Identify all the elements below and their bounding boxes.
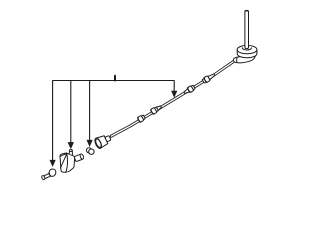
ferrule A on cable bbox=[137, 114, 145, 122]
leader line 3 bbox=[89, 81, 91, 141]
antenna mast rod bbox=[245, 10, 249, 48]
block part (middle bottom) bbox=[60, 149, 84, 172]
bracket tick (label position) bbox=[114, 76, 116, 81]
cable (main diagonal wire) bbox=[111, 61, 234, 136]
block top nub bbox=[69, 150, 72, 154]
block front-face edge bbox=[66, 153, 68, 172]
bolt (part far bottom-left) bbox=[41, 169, 56, 180]
cable end plug connector bbox=[94, 133, 113, 150]
block side boss bbox=[74, 154, 84, 162]
arrowhead 3 (to small ring) bbox=[87, 140, 93, 147]
arrowhead 4 (to cable) bbox=[171, 91, 177, 98]
ferrule D on cable (cone on right) bbox=[202, 72, 216, 84]
block diagonal line bbox=[61, 154, 67, 168]
arrowhead 1 (to bolt) bbox=[50, 160, 56, 167]
small ring / nut part bbox=[86, 148, 94, 155]
grommet ring (mast base bushing) bbox=[237, 45, 257, 57]
elbow snout joint line bbox=[236, 58, 238, 62]
antenna mast base elbow body bbox=[233, 56, 255, 63]
ferrule B on cable (with cone taper) bbox=[150, 104, 162, 114]
arrowhead 2 (to block nub) bbox=[68, 142, 74, 149]
ferrule C on cable (cone on left) bbox=[183, 85, 196, 96]
leader line 2 bbox=[70, 81, 72, 145]
block top-face rim line bbox=[60, 154, 66, 157]
callout bracket bbox=[53, 81, 175, 161]
block body silhouette bbox=[60, 153, 75, 172]
